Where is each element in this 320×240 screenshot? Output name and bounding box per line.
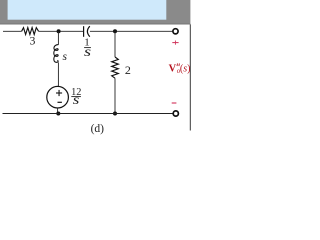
voltage source circle (47, 86, 69, 108)
resistor R=3 zigzag (22, 28, 39, 35)
node D (bottom of resistor 2 branch) (113, 112, 117, 116)
+ inside source (56, 90, 62, 96)
svg-text:s: s (73, 93, 80, 108)
capacitor C=1/s right curved plate (87, 26, 89, 37)
wire: top between resistor and capacitor (39, 30, 84, 32)
svg-text:3: 3 (30, 34, 36, 48)
svg-text:s: s (84, 44, 91, 60)
wire: source bottom to ground wire (57, 108, 59, 114)
window content light blue panel (8, 0, 167, 20)
red - polarity mark (172, 102, 177, 104)
svg-text:(s): (s) (180, 64, 191, 75)
wire: top left segment (3, 30, 22, 32)
svg-text:V: V (169, 64, 177, 75)
right figure border line (189, 24, 191, 130)
- inside source (58, 101, 62, 103)
node C (bottom of source) (56, 112, 60, 116)
resistor R=2 zigzag (112, 57, 119, 78)
wire: resistor 2 branch upper (114, 31, 116, 57)
svg-text:(d): (d) (91, 123, 105, 135)
wire: inductor branch lower (57, 62, 59, 86)
terminal (top right, open circle) (173, 29, 178, 34)
svg-text:2: 2 (125, 63, 131, 77)
window chrome grey bar (0, 0, 190, 24)
red + polarity mark (172, 41, 178, 45)
inductor L=s coil (54, 45, 59, 63)
wire: bottom rail (3, 113, 173, 115)
terminal (bottom right, open circle) (173, 111, 178, 116)
wire: resistor 2 branch lower (114, 78, 116, 113)
capacitor C=1/s left plate (83, 26, 85, 37)
wire: inductor branch upper (57, 31, 59, 45)
node B (top of resistor 2 branch) (113, 29, 117, 33)
node A (top of inductor branch) (57, 29, 61, 33)
darker bottom edge of grey bar (0, 23, 190, 25)
wire: top between capacitor and output terminal (90, 30, 173, 32)
svg-text:s: s (63, 51, 68, 63)
